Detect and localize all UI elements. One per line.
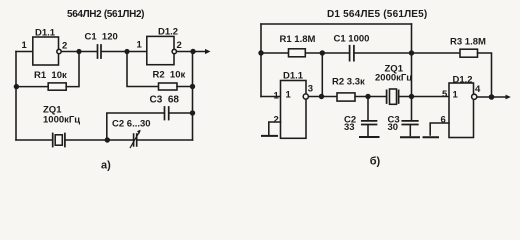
resistor R1 (b) box [289,49,306,57]
node dot C1-right (b) [409,50,414,55]
svg-text:D1.2: D1.2 [158,27,178,38]
wire: node A2 down to R2 (a) [127,52,159,87]
wire: R1 right up to output node (a) [66,52,79,87]
wire: feedback vertical to gate input node (b) [321,53,323,97]
svg-text:D1.1: D1.1 [35,27,56,38]
resistor R2 (b) box [337,93,355,101]
svg-text:R2 3.3к: R2 3.3к [332,76,365,87]
svg-text:C2 6...30: C2 6...30 [112,119,151,130]
node dot output (a) [190,49,195,54]
svg-text:2000кГц: 2000кГц [375,73,412,84]
svg-text:3: 3 [308,84,313,95]
svg-text:D1.2: D1.2 [453,74,473,85]
wire: bottom rail left segment (a) [16,139,53,141]
svg-text:R2 10к: R2 10к [153,70,186,81]
wire: C3 right (a) [169,112,193,114]
ground bar C3 (b) [401,136,419,138]
wire: C1 to D1.2 input (a) [101,51,147,53]
inverter U: D1.1 (a) box [33,37,59,65]
svg-text:D1 564ЛЕ5 (561ЛЕ5): D1 564ЛЕ5 (561ЛЕ5) [327,9,427,20]
svg-text:2: 2 [177,40,182,51]
capacitor C3 (a) plates [165,107,169,120]
svg-text:C1 120: C1 120 [85,32,118,43]
wire: bottom rail mid segment (a) [65,139,133,141]
node dot R2-right (b) [365,94,370,99]
wire: C1 to R3 (b) [354,52,460,54]
svg-text:2: 2 [274,115,279,126]
svg-text:6: 6 [441,115,446,126]
node dot C3-right (a) [190,110,195,115]
wire: right rail (a) [192,52,194,141]
svg-text:а): а) [101,160,111,172]
capacitor C3 (b) plates [402,121,418,125]
wire: D1.2 output (a) [177,51,206,53]
wire: D1.1 output to R2 (b) [309,96,338,98]
node dot bottom (a) [105,137,110,142]
wire: C3 branch left vertical (a) [107,113,165,140]
svg-text:2: 2 [62,41,67,52]
wire: bottom rail right segment (a) [137,139,193,141]
wire: D1.2 output (b) [477,96,508,98]
node dot output D1.2 (b) [489,94,495,100]
ground bar pin2 (b) [262,135,277,137]
wire: pin6 stub (b) [430,123,449,135]
node dot left-R1 (a) [14,84,19,89]
svg-text:б): б) [370,155,381,167]
wire: D1.1 output to C1 (a) [61,51,97,53]
ground bar C2 (b) [360,136,379,138]
svg-text:1: 1 [453,90,459,101]
svg-text:5: 5 [442,89,448,100]
crystal ZQ1 (b) [387,89,399,104]
capacitor C2 (b) plates [362,121,377,125]
node: left rail (a) [15,52,17,141]
wire: pin1 input (b) [261,96,281,98]
svg-text:4: 4 [475,84,481,95]
svg-text:C1 1000: C1 1000 [334,33,370,44]
svg-text:1: 1 [274,90,280,101]
wire: R1 to C1 (b) [305,52,349,54]
inverter U: D1.2 (a) box [147,36,174,64]
capacitor C1 (a) plates [98,45,102,58]
wire: R1 left (a) [16,86,48,88]
inverter bubble D1.1 (b) [303,94,308,99]
node dot R1-C1 (b) [320,50,325,55]
node dot left rail (b) [258,50,263,55]
wire: C3 to ground (b) [409,125,411,136]
node dot R2-right (a) [190,84,195,89]
inverter bubble D1.2 (a) [172,49,176,53]
svg-text:1: 1 [286,90,292,101]
inverter bubble D1.2 (b) [472,94,477,99]
node dot crystal-right (b) [409,94,414,99]
node dot output D1.1 (b) [319,94,324,99]
wire: crystal to pin5 (b) [399,96,449,98]
svg-text:1: 1 [22,40,28,51]
ground bar pin6 (b) [424,136,439,138]
wire: R2 to crystal (b) [355,96,386,98]
node dot A2 (a) [124,49,129,54]
svg-text:30: 30 [388,122,399,133]
wire: left rail (b) [260,24,262,97]
wire: C2 to ground (b) [367,125,369,136]
wire: R2 right (a) [177,86,193,88]
resistor R3 (b) box [460,49,478,57]
svg-text:564ЛН2 (561ЛН2): 564ЛН2 (561ЛН2) [67,9,144,20]
NOR gate D1.1 (b) box [281,81,307,139]
resistor R2 (a) box [159,83,178,90]
capacitor C1 (b) plates [350,46,354,61]
node dot A1 (a) [76,49,81,54]
wire: C1right vertical down to C3 (b) [411,24,413,121]
wire: input to D1.1 (a) [16,51,33,53]
svg-text:D1.1: D1.1 [283,70,304,81]
resistor R1 (a) box [48,83,66,90]
svg-text:R3 1.8M: R3 1.8M [450,36,486,47]
wire: C2 branch vertical (b) [367,97,369,121]
wire: R3 right to output node (b) [478,53,492,97]
inverter bubble D1.1 (a) [57,49,61,53]
output arrow (a) [205,49,211,54]
output arrow (b) [506,95,511,100]
svg-text:33: 33 [344,122,355,133]
svg-text:R1 10к: R1 10к [34,70,67,81]
svg-text:R1 1.8M: R1 1.8M [280,34,316,45]
wire: top feedback rail (b) [261,23,412,25]
trimmer capacitor C2 (a) [130,130,140,148]
NOR gate D1.2 (b) box [449,83,474,138]
svg-text:C3 68: C3 68 [150,95,180,106]
svg-text:1: 1 [137,40,143,51]
crystal ZQ1 (a) [53,134,65,147]
wire: pin2 stub (b) [269,122,281,135]
svg-text:1000кГц: 1000кГц [43,115,80,126]
wire: R1 rail left (b) [261,52,289,54]
